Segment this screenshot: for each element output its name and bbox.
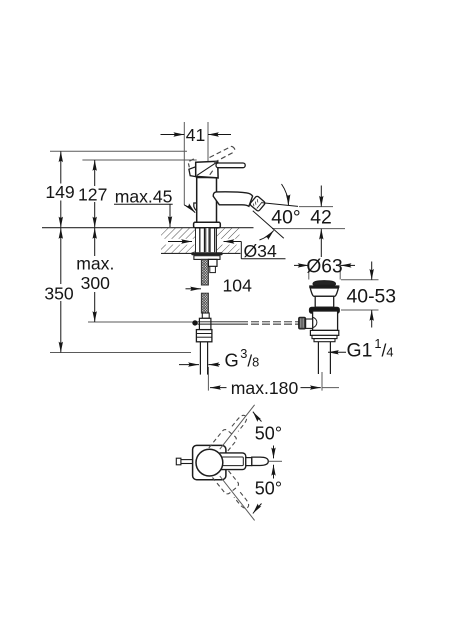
svg-text:max.: max. xyxy=(76,254,114,274)
svg-text:300: 300 xyxy=(81,273,111,293)
svg-text:149: 149 xyxy=(45,182,74,202)
svg-text:42: 42 xyxy=(310,206,332,228)
svg-text:127: 127 xyxy=(78,185,107,205)
svg-text:50°: 50° xyxy=(255,424,282,444)
svg-text:40-53: 40-53 xyxy=(347,286,397,308)
svg-text:50°: 50° xyxy=(255,478,282,498)
svg-text:Ø34: Ø34 xyxy=(244,241,277,261)
svg-text:350: 350 xyxy=(44,283,74,303)
svg-text:max.45: max.45 xyxy=(115,187,173,207)
svg-text:Ø63: Ø63 xyxy=(306,256,342,277)
svg-text:40°: 40° xyxy=(271,206,300,228)
svg-text:104: 104 xyxy=(223,276,253,296)
svg-text:max.180: max.180 xyxy=(231,378,299,398)
svg-text:41: 41 xyxy=(186,125,206,145)
